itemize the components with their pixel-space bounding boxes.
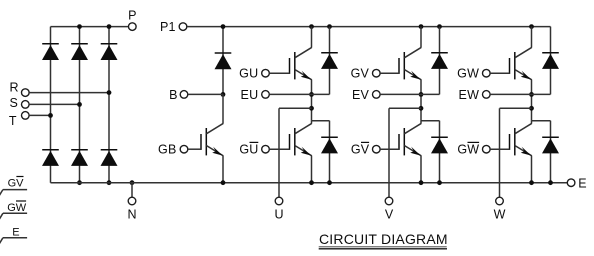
- svg-text:GV: GV: [8, 177, 25, 189]
- svg-text:GW: GW: [457, 67, 479, 81]
- svg-text:W: W: [494, 208, 506, 222]
- svg-text:GV: GV: [351, 67, 370, 81]
- svg-text:U: U: [274, 208, 283, 222]
- svg-text:GV: GV: [351, 143, 370, 157]
- svg-text:GU: GU: [239, 143, 258, 157]
- svg-text:P: P: [128, 9, 136, 23]
- svg-text:T: T: [9, 114, 17, 128]
- svg-text:R: R: [9, 81, 18, 95]
- svg-text:V: V: [385, 208, 394, 222]
- svg-text:EU: EU: [241, 88, 259, 102]
- svg-text:CIRCUIT DIAGRAM: CIRCUIT DIAGRAM: [319, 231, 448, 247]
- svg-text:GU: GU: [239, 67, 258, 81]
- svg-text:P1: P1: [160, 20, 176, 34]
- svg-text:GB: GB: [158, 143, 176, 157]
- svg-text:E: E: [578, 176, 586, 190]
- svg-text:EV: EV: [352, 88, 370, 102]
- svg-text:N: N: [127, 208, 136, 222]
- svg-text:GW: GW: [7, 202, 27, 214]
- svg-text:S: S: [10, 96, 18, 110]
- svg-text:E: E: [12, 227, 19, 239]
- svg-text:GW: GW: [457, 143, 479, 157]
- svg-text:B: B: [169, 88, 177, 102]
- svg-text:EW: EW: [459, 88, 480, 102]
